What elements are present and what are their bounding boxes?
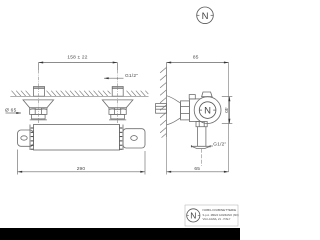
svg-text:NOBILI RUBINETTERIE: NOBILI RUBINETTERIE	[203, 208, 237, 212]
svg-text:40: 40	[223, 107, 229, 113]
svg-text:G1/2": G1/2"	[213, 141, 226, 147]
svg-text:290: 290	[77, 166, 86, 172]
svg-text:65: 65	[194, 166, 200, 172]
svg-text:85: 85	[193, 55, 199, 61]
svg-text:S.p.A. 28024 GOZZANO (NO): S.p.A. 28024 GOZZANO (NO)	[203, 213, 239, 217]
svg-text:VIA LAGNA, 21 - ITALY: VIA LAGNA, 21 - ITALY	[203, 217, 231, 221]
svg-text:158 ± 22: 158 ± 22	[67, 55, 87, 61]
svg-text:G1/2": G1/2"	[125, 73, 138, 79]
svg-text:N: N	[190, 210, 196, 220]
